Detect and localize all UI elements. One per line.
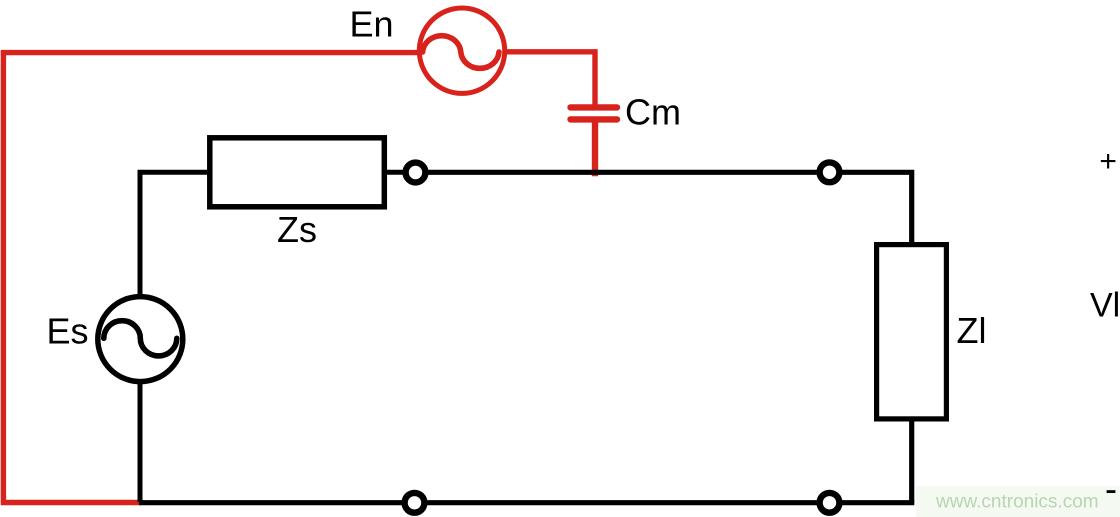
svg-text:Cm: Cm xyxy=(625,92,681,133)
capacitor Cm (bottom plate) xyxy=(571,116,618,122)
AC source Es (circle) xyxy=(98,297,183,382)
node: bottom-left open terminal xyxy=(405,493,425,513)
wire: Es up to top rail and right to Zs xyxy=(140,172,208,294)
wire: red loop (top horizontal, left vertical, bottom horizontal) xyxy=(3,53,417,503)
AC source En (circle) xyxy=(419,8,504,93)
wire: red from En to corner down to Cm xyxy=(506,52,595,107)
wire: bottom rail xyxy=(139,500,914,505)
node: top-left open terminal xyxy=(406,163,426,183)
watermark background xyxy=(916,486,1120,517)
resistor Zs xyxy=(210,138,384,207)
wire: top rail from node to corner, down to Zl xyxy=(427,172,912,243)
node: top-right open terminal xyxy=(820,162,840,182)
svg-text:Zs: Zs xyxy=(277,209,317,250)
AC source Es (sine wave) xyxy=(104,321,177,356)
wire: Zl bottom to bottom rail xyxy=(909,420,914,503)
svg-text:Es: Es xyxy=(47,311,89,352)
svg-text:www.cntronics.com: www.cntronics.com xyxy=(935,492,1099,513)
svg-text:-: - xyxy=(1105,468,1117,509)
svg-text:Zl: Zl xyxy=(957,310,987,351)
wire: red from Cm down to junction on top rail xyxy=(592,119,598,176)
capacitor Cm (top plate) xyxy=(571,104,618,110)
AC source En (sine wave) xyxy=(423,36,499,69)
svg-text:En: En xyxy=(350,3,394,44)
wire: Zs to top-left node xyxy=(386,170,404,175)
svg-text:Vl: Vl xyxy=(1090,287,1120,325)
resistor Zl xyxy=(877,245,947,419)
wire: Es down to bottom rail xyxy=(138,384,143,502)
svg-text:+: + xyxy=(1099,145,1117,178)
node: bottom-right open terminal xyxy=(820,493,840,513)
